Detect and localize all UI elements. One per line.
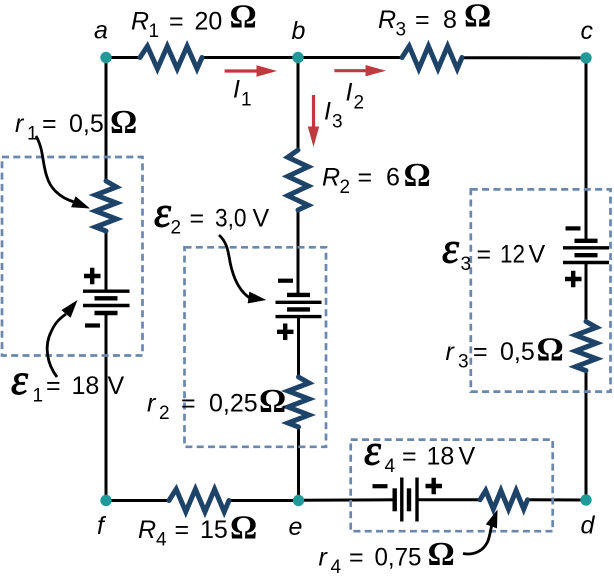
label I1 (233, 76, 252, 111)
svg-text:ε: ε (154, 190, 171, 237)
svg-text:=: = (402, 443, 417, 471)
svg-text:r: r (15, 110, 25, 138)
svg-text:=: = (175, 516, 190, 544)
resistor R2 (288, 150, 309, 210)
svg-text:V: V (459, 443, 476, 471)
pointer arrow from E1 label to E1 (47, 300, 77, 377)
svg-text:0,5: 0,5 (500, 338, 535, 366)
svg-text:V: V (253, 205, 270, 233)
label R2 = 6 ohm (322, 157, 431, 198)
svg-text:Ω: Ω (464, 0, 491, 35)
node b (292, 52, 303, 63)
svg-text:1: 1 (241, 90, 252, 111)
label r3 = 0,5 ohm (446, 332, 564, 373)
svg-text:e: e (289, 513, 303, 541)
svg-text:8: 8 (443, 6, 457, 34)
resistor r3 (576, 322, 597, 371)
node d (580, 494, 591, 505)
svg-text:6: 6 (386, 164, 400, 192)
svg-text:3: 3 (458, 352, 469, 373)
svg-text:3: 3 (396, 20, 407, 41)
svg-text:V: V (529, 241, 546, 269)
svg-text:=: = (415, 6, 430, 34)
svg-text:d: d (581, 512, 596, 540)
svg-text:=: = (477, 241, 492, 269)
label r2 = 0,25 ohm (147, 383, 286, 424)
label E4 = 18 V (364, 428, 476, 478)
wire f-e bottom (106, 499, 299, 502)
node a (100, 52, 111, 63)
label r4 = 0,75 ohm (319, 536, 455, 578)
svg-text:3: 3 (332, 112, 343, 133)
svg-text:0,75: 0,75 (375, 543, 422, 571)
svg-text:3: 3 (461, 254, 472, 275)
svg-text:1: 1 (27, 124, 38, 145)
svg-text:a: a (94, 17, 108, 45)
svg-text:=: = (169, 8, 184, 36)
label R3 = 8 ohm (378, 0, 491, 41)
current arrow I2 (334, 65, 386, 76)
dashed box around E2 and r2 (185, 247, 327, 446)
current arrow I1 (225, 65, 277, 76)
svg-text:3,0: 3,0 (215, 205, 247, 233)
label r1 = 0,5 ohm (15, 104, 137, 145)
svg-text:15: 15 (200, 516, 228, 544)
wire b-e middle branch (297, 58, 301, 501)
svg-text:0,25: 0,25 (209, 390, 258, 418)
svg-text:R: R (378, 6, 396, 34)
pointer arrow from E2 label to E2 (219, 235, 266, 303)
svg-text:1: 1 (33, 386, 44, 407)
svg-text:c: c (581, 17, 594, 45)
svg-text:V: V (108, 372, 125, 400)
label I3 (324, 98, 343, 133)
wire e-d bottom (299, 498, 587, 501)
pointer arrow from r1 label to r1 (36, 136, 90, 209)
battery E3 (minus top) (563, 228, 609, 287)
label E2 = 3,0 V (154, 190, 270, 239)
label R1 = 20 ohm (131, 0, 257, 42)
wire a-b top (106, 56, 298, 59)
svg-text:=: = (358, 164, 373, 192)
svg-text:=: = (181, 390, 196, 418)
svg-text:Ω: Ω (259, 383, 286, 420)
node f (100, 495, 111, 506)
svg-text:Ω: Ω (537, 332, 564, 369)
resistor r4 (480, 491, 528, 510)
wire a-f left branch (105, 58, 108, 501)
svg-text:ε: ε (364, 428, 381, 475)
svg-text:R: R (131, 8, 149, 36)
resistor R1 (140, 46, 202, 69)
pointer arrow from r4 label to r4 (463, 510, 498, 554)
svg-text:f: f (97, 512, 107, 540)
dashed box around E3 and r3 (471, 189, 611, 391)
svg-text:2: 2 (340, 177, 351, 198)
svg-text:4: 4 (331, 557, 342, 578)
label E1 = 18 V (11, 357, 125, 407)
svg-text:I: I (346, 79, 353, 107)
svg-text:ε: ε (442, 226, 459, 273)
dashed box around E4 and r4 (351, 440, 553, 532)
svg-text:=: = (349, 543, 364, 571)
svg-text:I: I (324, 98, 331, 126)
svg-text:R: R (322, 164, 340, 192)
battery E4 (horizontal, minus left) (373, 478, 443, 522)
svg-text:Ω: Ω (404, 157, 431, 194)
svg-text:Ω: Ω (428, 536, 455, 573)
resistor r1 (96, 181, 117, 231)
label R4 = 15 ohm (138, 510, 257, 551)
svg-text:r: r (319, 543, 329, 571)
svg-text:12: 12 (500, 241, 525, 269)
svg-text:r: r (147, 390, 157, 418)
wire b-c top (298, 56, 586, 59)
svg-text:=: = (46, 372, 61, 400)
svg-text:Ω: Ω (230, 510, 257, 547)
battery E2 (minus top) (276, 281, 322, 340)
dashed box around r1 and E1 (2, 157, 143, 356)
svg-text:b: b (292, 17, 306, 45)
svg-text:ε: ε (11, 357, 28, 404)
svg-text:4: 4 (156, 530, 167, 551)
svg-text:=: = (190, 205, 205, 233)
svg-text:r: r (446, 338, 456, 366)
svg-text:=: = (42, 110, 57, 138)
svg-text:=: = (473, 338, 488, 366)
label I2 (346, 79, 365, 114)
svg-text:2: 2 (171, 218, 182, 239)
node e (293, 495, 304, 506)
svg-text:R: R (138, 516, 156, 544)
svg-text:2: 2 (354, 93, 365, 114)
svg-text:Ω: Ω (110, 104, 137, 141)
svg-text:20: 20 (195, 8, 223, 36)
svg-text:1: 1 (149, 21, 160, 42)
svg-text:I: I (233, 76, 240, 104)
svg-text:18: 18 (72, 372, 100, 400)
node c (580, 52, 591, 63)
resistor R4 (169, 489, 229, 512)
label E3 = 12 V (442, 226, 546, 276)
svg-text:0,5: 0,5 (69, 110, 104, 138)
current arrow I3 (308, 95, 319, 147)
svg-text:Ω: Ω (230, 0, 257, 36)
svg-text:18: 18 (427, 443, 455, 471)
svg-text:2: 2 (159, 403, 170, 424)
resistor R3 (402, 46, 462, 69)
resistor r2 (288, 377, 309, 427)
battery E1 (plus top) (83, 268, 130, 326)
svg-text:4: 4 (385, 456, 396, 477)
wire c-d right branch (585, 58, 588, 500)
